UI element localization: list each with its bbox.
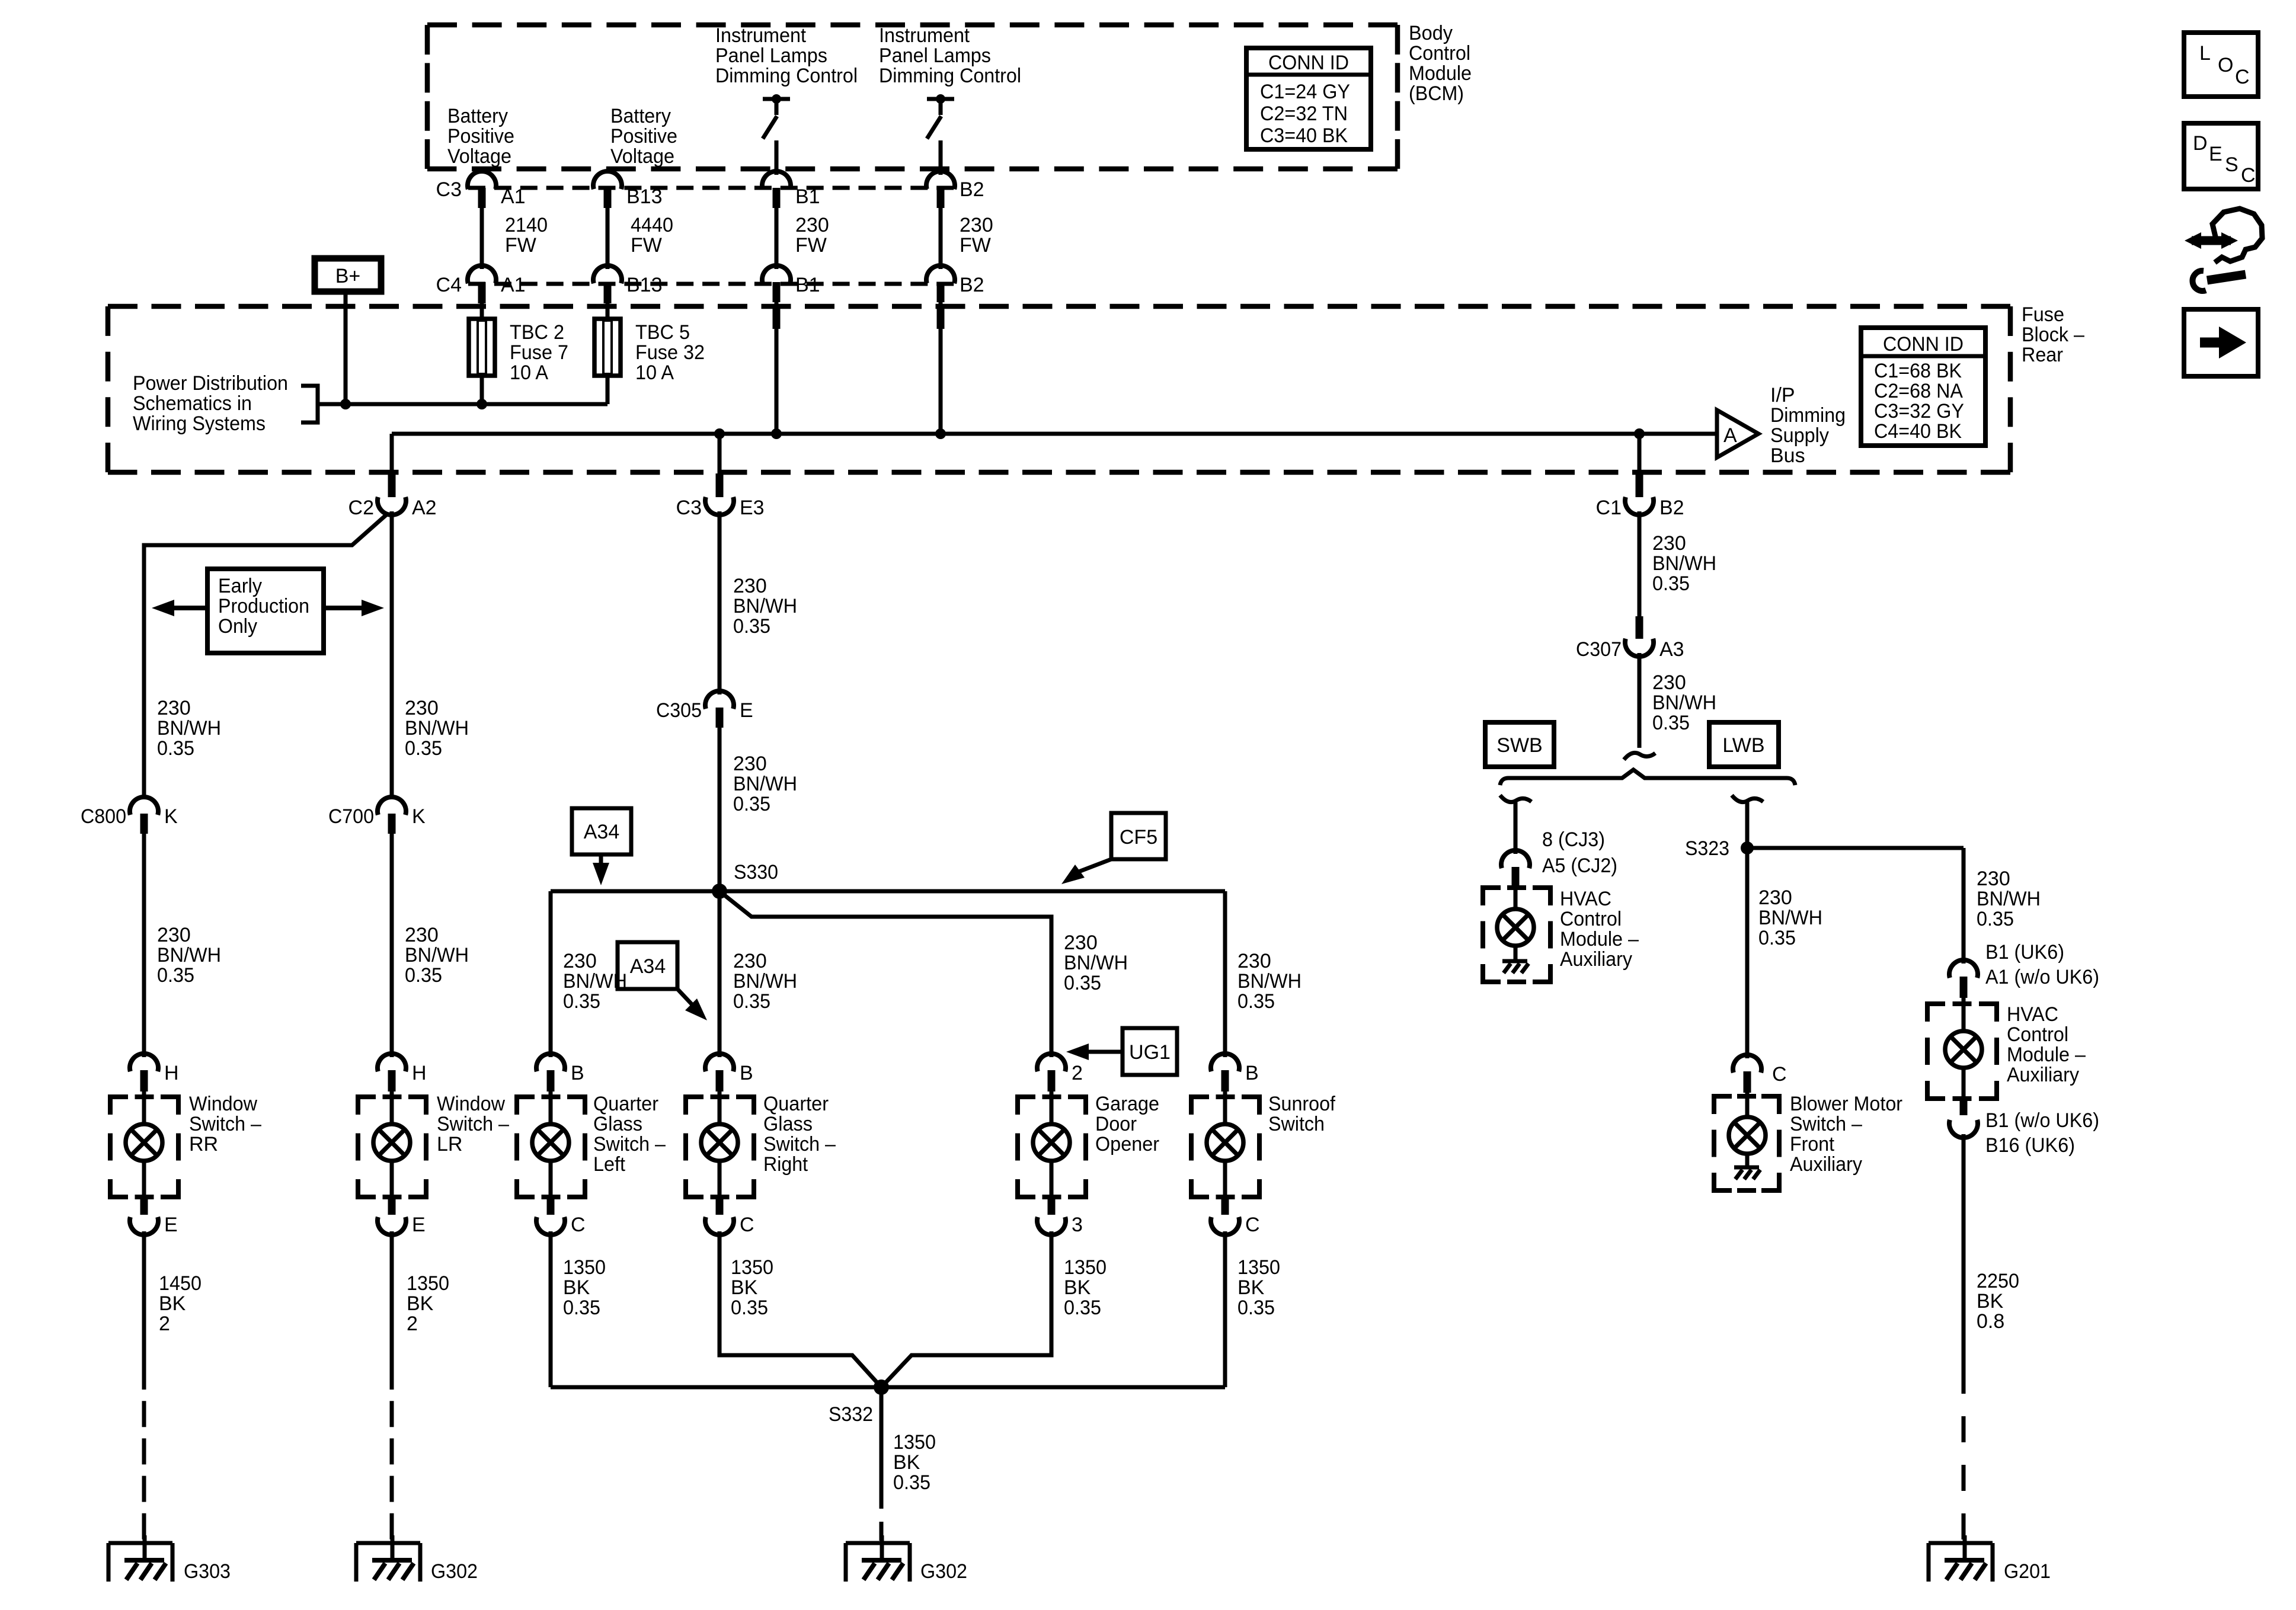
svg-text:HVAC: HVAC (2007, 1003, 2058, 1026)
svg-text:D: D (2193, 132, 2208, 155)
svg-text:0.35: 0.35 (563, 990, 600, 1013)
svg-text:I/P: I/P (1770, 384, 1795, 406)
svg-text:1450: 1450 (159, 1272, 202, 1295)
svg-text:0.35: 0.35 (1237, 990, 1275, 1013)
svg-text:2: 2 (407, 1313, 418, 1335)
svg-text:Switch –: Switch – (593, 1133, 666, 1156)
svg-text:FW: FW (505, 234, 536, 257)
svg-text:B: B (571, 1062, 584, 1084)
svg-text:E: E (412, 1214, 426, 1236)
svg-text:B16 (UK6): B16 (UK6) (1985, 1134, 2075, 1157)
svg-text:Voltage: Voltage (610, 145, 674, 168)
svg-text:E: E (740, 699, 753, 722)
svg-text:Schematics in: Schematics in (133, 392, 252, 415)
svg-text:Bus: Bus (1770, 444, 1805, 467)
svg-text:230: 230 (733, 575, 767, 597)
svg-text:Wiring Systems: Wiring Systems (133, 412, 266, 435)
svg-text:B13: B13 (626, 185, 663, 208)
svg-text:BN/WH: BN/WH (1652, 692, 1716, 714)
svg-text:BN/WH: BN/WH (733, 970, 797, 993)
svg-text:E3: E3 (740, 497, 765, 519)
svg-text:2: 2 (1072, 1062, 1083, 1084)
svg-text:G201: G201 (2004, 1560, 2051, 1583)
svg-text:230: 230 (405, 697, 439, 719)
svg-text:1350: 1350 (893, 1431, 936, 1454)
svg-text:C2=32 TN: C2=32 TN (1260, 103, 1348, 125)
svg-text:TBC 5: TBC 5 (635, 321, 690, 344)
svg-text:0.35: 0.35 (1064, 1297, 1101, 1319)
svg-text:230: 230 (1977, 868, 2010, 890)
svg-text:230: 230 (157, 924, 191, 946)
svg-text:B2: B2 (960, 274, 984, 296)
svg-text:2: 2 (159, 1313, 170, 1335)
svg-text:1350: 1350 (1237, 1256, 1280, 1279)
svg-text:Panel Lamps: Panel Lamps (879, 44, 991, 67)
svg-text:A34: A34 (630, 955, 666, 978)
svg-text:230: 230 (1652, 532, 1686, 555)
svg-text:Positive: Positive (610, 125, 677, 148)
svg-text:C: C (1772, 1063, 1787, 1086)
svg-text:Switch: Switch (1268, 1113, 1325, 1135)
svg-text:H: H (164, 1062, 179, 1084)
svg-text:B2: B2 (1659, 497, 1684, 519)
svg-text:Module –: Module – (1560, 928, 1639, 950)
svg-text:C1=24 GY: C1=24 GY (1260, 81, 1350, 103)
svg-text:230: 230 (1237, 950, 1271, 972)
svg-text:LR: LR (437, 1133, 462, 1156)
svg-text:LWB: LWB (1722, 734, 1764, 757)
svg-text:BK: BK (159, 1292, 186, 1315)
svg-text:CF5: CF5 (1120, 826, 1157, 849)
svg-text:Garage: Garage (1095, 1093, 1159, 1115)
svg-text:BK: BK (893, 1451, 920, 1474)
svg-text:BN/WH: BN/WH (157, 717, 221, 740)
svg-text:Rear: Rear (2022, 344, 2063, 366)
svg-text:C: C (2235, 66, 2250, 88)
svg-text:A1: A1 (501, 274, 526, 296)
svg-text:Front: Front (1790, 1133, 1835, 1156)
svg-text:Module –: Module – (2007, 1044, 2086, 1066)
svg-text:BK: BK (1977, 1290, 2004, 1313)
svg-text:A1 (w/o UK6): A1 (w/o UK6) (1985, 966, 2099, 988)
svg-text:BN/WH: BN/WH (1758, 907, 1822, 929)
svg-text:B1: B1 (795, 185, 820, 208)
svg-text:Switch –: Switch – (189, 1113, 261, 1135)
svg-text:0.35: 0.35 (1064, 972, 1101, 994)
svg-text:C3=32 GY: C3=32 GY (1874, 400, 1964, 422)
svg-text:Switch –: Switch – (437, 1113, 509, 1135)
svg-text:Quarter: Quarter (593, 1093, 658, 1115)
svg-text:Dimming Control: Dimming Control (879, 65, 1021, 87)
svg-text:Body: Body (1409, 22, 1453, 44)
svg-text:Left: Left (593, 1153, 626, 1176)
svg-text:C307: C307 (1576, 638, 1622, 661)
svg-text:0.35: 0.35 (157, 737, 194, 760)
svg-text:Positive: Positive (447, 125, 514, 148)
svg-text:Switch –: Switch – (1790, 1113, 1862, 1135)
svg-text:(BCM): (BCM) (1409, 82, 1464, 105)
svg-text:BK: BK (731, 1276, 758, 1299)
svg-text:Battery: Battery (447, 105, 508, 127)
svg-text:230: 230 (960, 214, 993, 236)
svg-text:Fuse: Fuse (2022, 303, 2064, 326)
svg-text:Blower Motor: Blower Motor (1790, 1093, 1902, 1115)
svg-text:C: C (1245, 1214, 1260, 1236)
svg-text:Control: Control (1409, 42, 1470, 65)
svg-text:3: 3 (1072, 1214, 1083, 1236)
svg-text:10 A: 10 A (635, 361, 674, 384)
svg-text:C1: C1 (1596, 497, 1622, 519)
svg-text:Voltage: Voltage (447, 145, 511, 168)
svg-text:BK: BK (407, 1292, 434, 1315)
svg-text:B13: B13 (626, 274, 663, 296)
svg-text:C: C (571, 1214, 586, 1236)
svg-text:B+: B+ (335, 265, 361, 287)
svg-text:Window: Window (437, 1093, 505, 1115)
svg-text:BN/WH: BN/WH (1652, 552, 1716, 575)
svg-text:230: 230 (1064, 932, 1098, 954)
svg-text:Glass: Glass (593, 1113, 642, 1135)
svg-text:O: O (2218, 54, 2233, 76)
svg-text:B1: B1 (795, 274, 820, 296)
svg-text:0.35: 0.35 (405, 964, 442, 987)
svg-text:4440: 4440 (631, 214, 673, 236)
svg-text:Switch –: Switch – (763, 1133, 836, 1156)
svg-text:230: 230 (733, 950, 767, 972)
svg-text:BK: BK (1064, 1276, 1091, 1299)
svg-text:Auxiliary: Auxiliary (1560, 948, 1632, 971)
svg-text:Sunroof: Sunroof (1268, 1093, 1336, 1115)
svg-text:A34: A34 (584, 821, 620, 843)
svg-text:BN/WH: BN/WH (1237, 970, 1302, 993)
svg-text:BN/WH: BN/WH (1977, 888, 2041, 910)
svg-text:C1=68 BK: C1=68 BK (1874, 360, 1962, 382)
svg-text:B1 (w/o UK6): B1 (w/o UK6) (1985, 1109, 2099, 1132)
svg-text:A5 (CJ2): A5 (CJ2) (1542, 854, 1617, 877)
svg-text:SWB: SWB (1496, 734, 1542, 757)
svg-text:BN/WH: BN/WH (405, 717, 469, 740)
svg-text:0.35: 0.35 (1652, 712, 1690, 734)
svg-text:S323: S323 (1685, 837, 1729, 860)
svg-text:Dimming Control: Dimming Control (715, 65, 858, 87)
svg-text:G302: G302 (431, 1560, 478, 1583)
svg-text:Supply: Supply (1770, 424, 1829, 447)
svg-text:230: 230 (157, 697, 191, 719)
svg-text:RR: RR (189, 1133, 218, 1156)
svg-text:S: S (2225, 153, 2239, 176)
svg-text:Power Distribution: Power Distribution (133, 372, 288, 395)
svg-text:A2: A2 (412, 497, 437, 519)
svg-text:1350: 1350 (1064, 1256, 1107, 1279)
svg-text:E: E (2209, 143, 2223, 165)
svg-text:Early: Early (218, 575, 262, 597)
svg-text:Production: Production (218, 595, 309, 617)
svg-text:Opener: Opener (1095, 1133, 1159, 1156)
svg-text:FW: FW (631, 234, 662, 257)
svg-text:TBC 2: TBC 2 (510, 321, 564, 344)
svg-text:0.35: 0.35 (1652, 572, 1690, 595)
svg-text:0.35: 0.35 (1237, 1297, 1275, 1319)
svg-text:C3=40 BK: C3=40 BK (1260, 124, 1348, 147)
svg-text:Auxiliary: Auxiliary (1790, 1153, 1862, 1176)
svg-text:B1 (UK6): B1 (UK6) (1985, 941, 2064, 964)
svg-text:0.35: 0.35 (563, 1297, 600, 1319)
svg-text:UG1: UG1 (1129, 1041, 1171, 1064)
svg-text:CONN ID: CONN ID (1268, 52, 1349, 74)
svg-text:0.35: 0.35 (405, 737, 442, 760)
svg-text:BN/WH: BN/WH (157, 944, 221, 966)
svg-text:Instrument: Instrument (879, 24, 970, 47)
svg-text:Battery: Battery (610, 105, 671, 127)
svg-text:L: L (2199, 42, 2211, 65)
svg-text:Only: Only (218, 615, 257, 638)
svg-text:K: K (412, 805, 426, 828)
svg-text:S332: S332 (829, 1403, 873, 1426)
svg-text:230: 230 (733, 753, 767, 775)
svg-text:C700: C700 (328, 805, 374, 828)
svg-text:0.35: 0.35 (1977, 908, 2014, 930)
svg-text:Fuse 7: Fuse 7 (510, 341, 568, 364)
svg-text:8 (CJ3): 8 (CJ3) (1542, 828, 1605, 851)
svg-text:K: K (164, 805, 178, 828)
svg-text:A3: A3 (1659, 638, 1684, 661)
svg-text:Quarter: Quarter (763, 1093, 829, 1115)
svg-text:C3: C3 (436, 178, 462, 201)
svg-text:BK: BK (1237, 1276, 1265, 1299)
svg-text:Panel Lamps: Panel Lamps (715, 44, 827, 67)
svg-text:0.35: 0.35 (157, 964, 194, 987)
svg-text:1350: 1350 (563, 1256, 606, 1279)
svg-text:C305: C305 (656, 699, 702, 722)
svg-text:CONN ID: CONN ID (1883, 333, 1964, 356)
svg-text:Control: Control (1560, 908, 1622, 930)
svg-text:C2=68 NA: C2=68 NA (1874, 380, 1963, 402)
svg-text:A: A (1723, 424, 1737, 447)
svg-text:Door: Door (1095, 1113, 1137, 1135)
svg-text:C: C (2241, 164, 2256, 187)
svg-text:Dimming: Dimming (1770, 404, 1846, 427)
svg-text:B: B (1245, 1062, 1259, 1084)
svg-text:2250: 2250 (1977, 1270, 2019, 1292)
svg-text:BN/WH: BN/WH (733, 595, 797, 617)
svg-text:10 A: 10 A (510, 361, 548, 384)
svg-text:BK: BK (563, 1276, 590, 1299)
svg-text:230: 230 (795, 214, 829, 236)
svg-text:Window: Window (189, 1093, 257, 1115)
svg-text:FW: FW (960, 234, 991, 257)
svg-text:230: 230 (1758, 886, 1792, 909)
svg-text:BN/WH: BN/WH (733, 773, 797, 795)
svg-text:A1: A1 (501, 185, 526, 208)
svg-text:2140: 2140 (505, 214, 548, 236)
svg-text:Control: Control (2007, 1023, 2068, 1046)
svg-text:Block –: Block – (2022, 324, 2084, 346)
svg-text:1350: 1350 (407, 1272, 449, 1295)
svg-text:Right: Right (763, 1153, 808, 1176)
svg-text:C: C (740, 1214, 754, 1236)
svg-text:HVAC: HVAC (1560, 888, 1611, 910)
svg-text:BN/WH: BN/WH (405, 944, 469, 966)
svg-text:C2: C2 (348, 497, 374, 519)
svg-text:B2: B2 (960, 178, 984, 201)
svg-text:0.35: 0.35 (1758, 927, 1796, 949)
svg-text:Fuse 32: Fuse 32 (635, 341, 705, 364)
svg-text:G303: G303 (184, 1560, 231, 1583)
svg-text:0.35: 0.35 (733, 615, 770, 638)
svg-text:1350: 1350 (731, 1256, 773, 1279)
svg-text:0.35: 0.35 (733, 990, 770, 1013)
svg-text:FW: FW (795, 234, 827, 257)
svg-text:0.35: 0.35 (731, 1297, 768, 1319)
svg-text:C3: C3 (676, 497, 702, 519)
svg-text:230: 230 (1652, 671, 1686, 694)
svg-text:C4: C4 (436, 274, 462, 296)
svg-text:C4=40 BK: C4=40 BK (1874, 420, 1962, 443)
svg-text:BN/WH: BN/WH (1064, 952, 1128, 974)
svg-text:E: E (164, 1214, 178, 1236)
svg-text:H: H (412, 1062, 427, 1084)
svg-text:230: 230 (563, 950, 597, 972)
svg-text:0.35: 0.35 (733, 793, 770, 815)
svg-text:B: B (740, 1062, 753, 1084)
svg-text:Glass: Glass (763, 1113, 813, 1135)
svg-text:Module: Module (1409, 62, 1472, 85)
svg-text:C800: C800 (81, 805, 126, 828)
svg-text:230: 230 (405, 924, 439, 946)
svg-text:0.8: 0.8 (1977, 1310, 2004, 1333)
svg-text:0.35: 0.35 (893, 1471, 930, 1494)
svg-text:S330: S330 (734, 861, 778, 884)
svg-text:Instrument: Instrument (715, 24, 807, 47)
svg-text:G302: G302 (920, 1560, 967, 1583)
svg-text:Auxiliary: Auxiliary (2007, 1064, 2079, 1086)
